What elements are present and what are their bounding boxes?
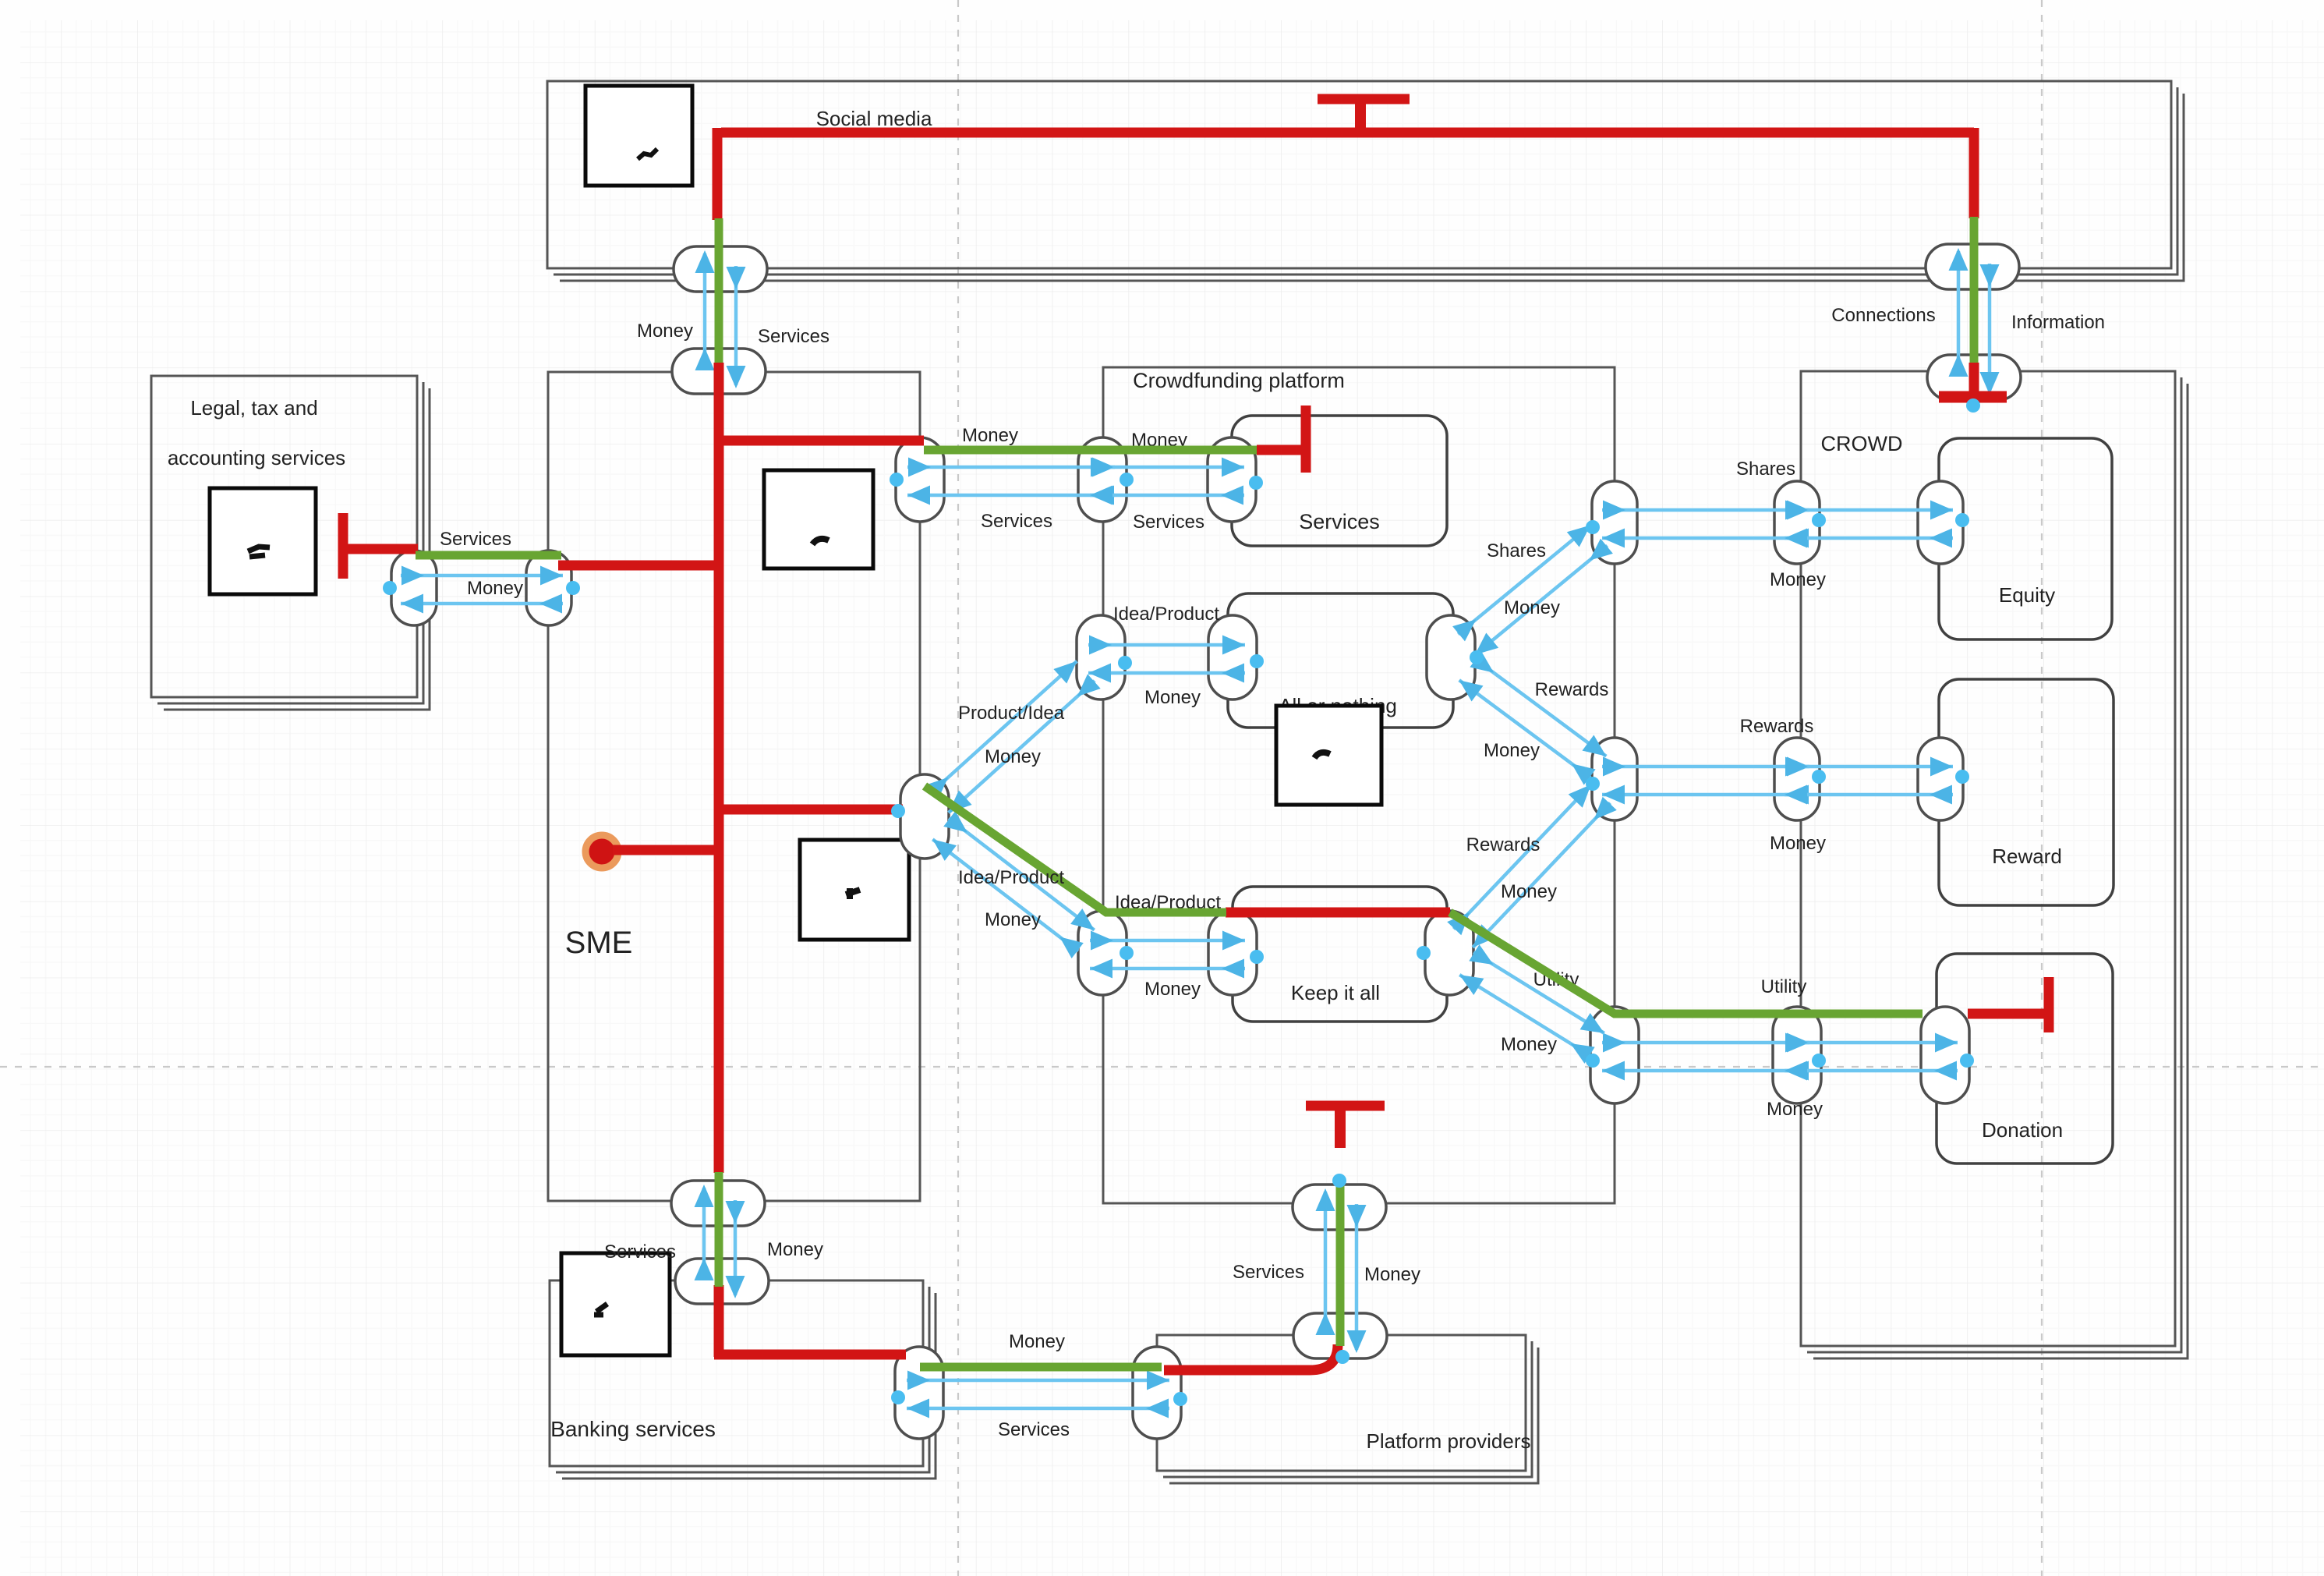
- dot crowd donation: [1812, 1054, 1826, 1068]
- dot equity box: [1955, 513, 1969, 527]
- svg-text:Services: Services: [758, 326, 829, 347]
- svg-text:Money: Money: [1501, 881, 1557, 902]
- red path: providers entry: [1164, 1344, 1338, 1370]
- red path: branch legal to trunk: [558, 561, 719, 571]
- svg-text:Utility: Utility: [1761, 976, 1807, 997]
- port: SME top: [672, 349, 766, 394]
- port: platform left upper: [1078, 437, 1127, 522]
- dot hub shares: [1586, 520, 1600, 534]
- actor: CROWD (market segment): [1813, 384, 2188, 1358]
- dot donation box: [1960, 1054, 1974, 1068]
- actor: Platform providers: [1169, 1348, 1538, 1483]
- port: SME right upper: [896, 437, 944, 522]
- red path: into CROWD port: [1969, 363, 1979, 393]
- exchange: platform / all-or-nothing box: [1088, 643, 1245, 647]
- exchange: legal / SME: [401, 574, 563, 578]
- port: banking top: [675, 1259, 769, 1304]
- svg-text:Reward: Reward: [1992, 845, 2062, 868]
- svg-text:Money: Money: [1364, 1264, 1420, 1285]
- svg-text:Rewards: Rewards: [1466, 834, 1540, 855]
- red path: T end marker donation: [2044, 977, 2054, 1032]
- port: services box left: [1208, 437, 1256, 522]
- exchange: keep-it-all / rewards hub: [1454, 784, 1591, 929]
- green path: social media to CROWD vertical: [1970, 217, 1979, 363]
- svg-text:Money: Money: [1770, 569, 1826, 590]
- green path: providers to platform vertical: [1336, 1180, 1345, 1346]
- port: social media bottom: [674, 246, 767, 292]
- svg-text:Money: Money: [1504, 597, 1560, 618]
- svg-text:Money: Money: [467, 578, 523, 599]
- svg-text:Banking services: Banking services: [550, 1417, 716, 1441]
- port: equity box: [1918, 481, 1963, 564]
- port: SME left: [526, 551, 571, 625]
- green path: social media to SME vertical: [715, 218, 723, 363]
- svg-text:Crowdfunding platform: Crowdfunding platform: [1133, 369, 1345, 392]
- value activity: All or nothing: [1228, 593, 1453, 728]
- port: hub shares: [1592, 481, 1637, 564]
- exchange: shares hub / CROWD: [1602, 508, 1809, 512]
- port: providers left: [1133, 1347, 1181, 1439]
- dot kia left: [1250, 950, 1264, 964]
- svg-text:Money: Money: [1770, 833, 1826, 854]
- port: platform bottom: [1293, 1185, 1386, 1230]
- dot crowd top port: [1966, 398, 1980, 413]
- icon: legal scales: [210, 488, 316, 594]
- exchange: all-or-nothing / rewards hub: [1475, 659, 1606, 756]
- actor: Crowdfunding platform: [1103, 367, 1615, 1203]
- svg-text:Rewards: Rewards: [1740, 716, 1814, 737]
- red path: branch to SME right upper port: [719, 436, 924, 446]
- svg-text:Idea/Product: Idea/Product: [1113, 604, 1219, 625]
- svg-text:Equity: Equity: [1999, 583, 2055, 607]
- svg-text:Platform providers: Platform providers: [1367, 1429, 1531, 1453]
- exchange: platform / services box: [1090, 466, 1244, 469]
- red path: T end marker crowd: [1939, 391, 2007, 403]
- port: banking right: [895, 1347, 943, 1439]
- exchange: SME / all-or-nothing (Product-Idea, Money): [931, 661, 1077, 793]
- green path: legal services: [416, 551, 561, 560]
- svg-text:Money: Money: [1767, 1099, 1823, 1120]
- svg-text:Services: Services: [981, 511, 1052, 532]
- exchange: all-or-nothing / shares hub: [1458, 525, 1590, 634]
- port: CROWD equity row: [1774, 481, 1820, 564]
- dot platform aon: [1118, 656, 1132, 670]
- exchange: rewards hub / CROWD: [1602, 765, 1809, 769]
- svg-text:Social media: Social media: [816, 107, 932, 130]
- exchange: SME / platform services: [907, 466, 1115, 469]
- svg-text:Services: Services: [604, 1241, 676, 1263]
- port: CROWD top: [1927, 355, 2021, 400]
- svg-text:Services: Services: [1133, 512, 1204, 533]
- exchange: CROWD / reward box: [1785, 765, 1953, 769]
- dot providers left: [1173, 1392, 1187, 1406]
- red path: dot to SME trunk: [613, 845, 719, 855]
- port: legal right: [391, 551, 437, 625]
- svg-text:CROWD: CROWD: [1821, 432, 1903, 455]
- port: providers top: [1293, 1313, 1387, 1358]
- icon: SME factory: [764, 470, 873, 568]
- svg-text:Shares: Shares: [1736, 459, 1795, 480]
- exchange: CROWD / donation box: [1785, 1041, 1958, 1045]
- exchange: keep-it-all / utility hub: [1473, 952, 1604, 1033]
- port: all-or-nothing box left: [1208, 615, 1257, 699]
- green path: banking to providers: [920, 1363, 1162, 1372]
- dot SME right upper: [890, 473, 904, 487]
- green path: SME to banking vertical: [715, 1172, 723, 1287]
- red path: SME trunk vertical: [714, 363, 724, 1173]
- port: platform keep-it-all: [1078, 911, 1127, 995]
- dot aon right: [1470, 650, 1484, 664]
- port: reward box: [1918, 738, 1963, 820]
- exchange: platform / providers: [1324, 1192, 1328, 1331]
- svg-text:Legal, tax and: Legal, tax and: [190, 396, 317, 420]
- svg-text:Idea/Product: Idea/Product: [958, 867, 1064, 888]
- dot SME right lower: [891, 804, 905, 818]
- actor: Banking services: [562, 1293, 936, 1479]
- svg-text:Services: Services: [440, 529, 511, 550]
- red path: keep-it-all row: [1226, 908, 1450, 918]
- actor: SME: [548, 372, 920, 1201]
- svg-text:Money: Money: [1009, 1331, 1065, 1352]
- svg-text:Money: Money: [767, 1239, 823, 1260]
- dot hub rewards: [1586, 777, 1600, 791]
- red path: donation entry: [1968, 1009, 2044, 1019]
- exchange: banking / providers: [907, 1379, 1169, 1383]
- dot platform kia: [1120, 946, 1134, 960]
- port: platform all-or-nothing: [1077, 615, 1125, 699]
- dot services box: [1249, 476, 1263, 490]
- icon: social media megaphone: [585, 86, 692, 186]
- svg-text:accounting services: accounting services: [168, 446, 345, 469]
- red path: T end marker providers: [1306, 1101, 1385, 1111]
- green path: SME to platform services: [924, 446, 1257, 455]
- actor: Legal, tax and accounting services: [164, 388, 430, 710]
- dot legal port: [383, 581, 397, 595]
- port: hub rewards: [1592, 738, 1637, 820]
- red path: T end marker legal: [338, 513, 348, 579]
- actor: Social media (market segment): [560, 94, 2184, 281]
- svg-text:Money: Money: [985, 909, 1041, 930]
- green path: keep-it-all diagonal to utility hub: [1450, 912, 1923, 1014]
- port: SME right lower: [900, 774, 949, 859]
- exchange: SME / banking: [702, 1188, 706, 1277]
- dot platform upper: [1120, 473, 1134, 487]
- svg-text:Money: Money: [1144, 979, 1201, 1000]
- svg-text:Services: Services: [1233, 1262, 1304, 1283]
- port: donation box: [1921, 1007, 1969, 1103]
- exchange: utility hub / CROWD: [1602, 1041, 1809, 1045]
- value activity: Equity: [1939, 438, 2112, 639]
- value activity: Donation: [1937, 954, 2113, 1163]
- red path: right corner down: [1969, 128, 1979, 218]
- port: SME bottom: [671, 1181, 765, 1226]
- svg-text:Connections: Connections: [1831, 305, 1935, 326]
- value activity: Services: [1232, 416, 1447, 546]
- red path: T end marker top: [1318, 94, 1410, 104]
- dot crowd equity: [1812, 513, 1826, 527]
- icon: SME arrow: [800, 840, 909, 940]
- svg-text:Donation: Donation: [1982, 1118, 2063, 1142]
- port: hub utility: [1590, 1007, 1639, 1103]
- red path: T end marker services: [1301, 406, 1311, 473]
- svg-text:Money: Money: [985, 746, 1041, 767]
- dot SME left port: [566, 581, 580, 595]
- svg-text:Money: Money: [1484, 740, 1540, 761]
- port: all-or-nothing box right: [1427, 615, 1475, 699]
- value activity: Keep it all: [1233, 887, 1447, 1022]
- svg-text:Services: Services: [1299, 510, 1380, 533]
- red path: branch to SME lower right port: [719, 805, 903, 815]
- dot providers top: [1335, 1350, 1349, 1364]
- exchange: social media / SME: [703, 253, 707, 367]
- dot banking right: [891, 1390, 905, 1404]
- svg-text:Shares: Shares: [1487, 540, 1546, 561]
- port: CROWD reward row: [1774, 738, 1820, 820]
- dot reward box: [1955, 770, 1969, 784]
- svg-text:Product/Idea: Product/Idea: [958, 703, 1065, 724]
- svg-text:Rewards: Rewards: [1535, 679, 1609, 700]
- icon: banking building: [561, 1253, 670, 1355]
- exchange: SME / keep-it-all (Idea-Product, Money): [949, 818, 1095, 930]
- red path: banking trunk: [714, 1285, 724, 1357]
- svg-text:Money: Money: [1144, 687, 1201, 708]
- path start stimulus (red dot): [585, 835, 618, 868]
- value activity: Reward: [1939, 679, 2114, 905]
- svg-text:Information: Information: [2011, 312, 2105, 333]
- dot crowd reward: [1812, 770, 1826, 784]
- green path: SME diagonal to keep-it-all: [925, 786, 1226, 912]
- red path: social media horizontal: [721, 128, 1974, 138]
- svg-text:Money: Money: [1501, 1034, 1557, 1055]
- exchange: CROWD / equity box: [1785, 508, 1953, 512]
- svg-text:Money: Money: [962, 425, 1018, 446]
- dot aon left: [1250, 654, 1264, 668]
- dot platform bottom port: [1332, 1174, 1346, 1188]
- dot hub utility: [1586, 1054, 1600, 1068]
- port: CROWD donation row: [1773, 1007, 1821, 1103]
- port: keep-it-all box right: [1425, 911, 1473, 995]
- svg-text:SME: SME: [565, 926, 633, 960]
- icon: all-or-nothing target: [1276, 706, 1381, 805]
- dot kia right: [1417, 946, 1431, 960]
- svg-text:Services: Services: [998, 1419, 1070, 1440]
- svg-text:Money: Money: [637, 321, 693, 342]
- port: social media right: [1926, 244, 2019, 289]
- svg-text:Keep it all: Keep it all: [1291, 981, 1380, 1004]
- port: keep-it-all box left: [1208, 911, 1257, 995]
- exchange: platform / keep-it-all box: [1090, 939, 1245, 943]
- exchange: social media / CROWD: [1957, 251, 1961, 373]
